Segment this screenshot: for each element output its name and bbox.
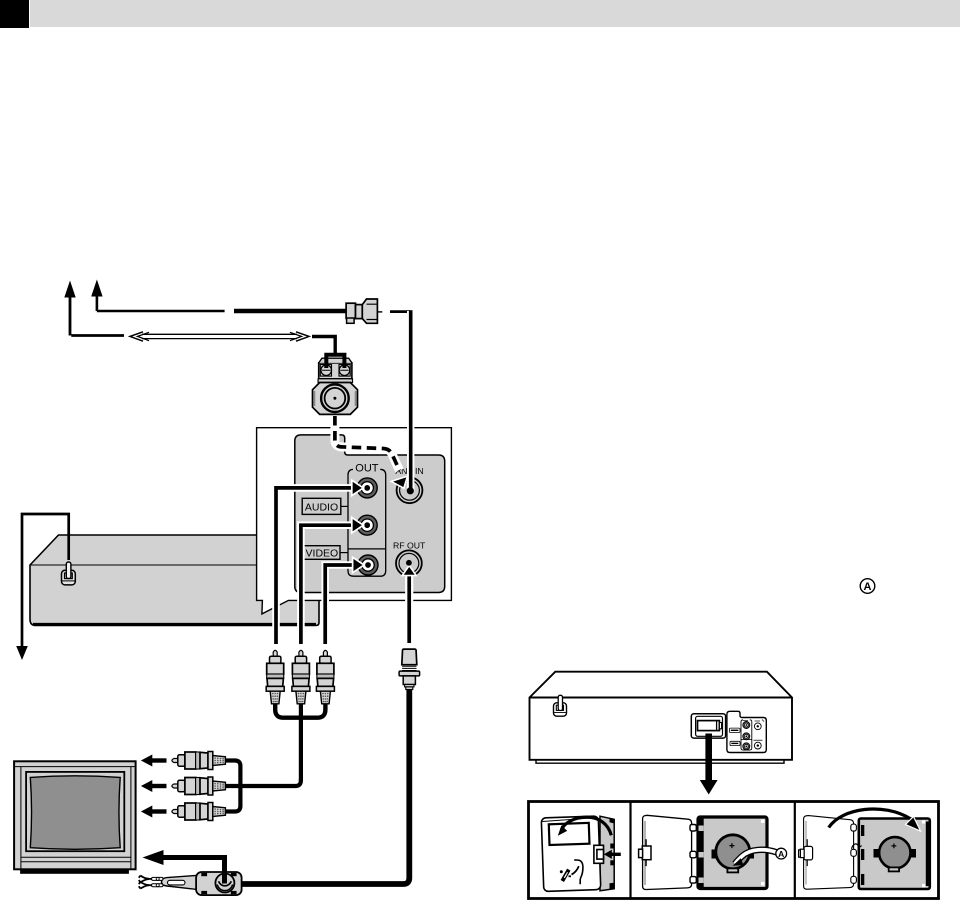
video cable with arrow bbox=[325, 557, 364, 644]
cable joins for left plugs bbox=[225, 761, 301, 812]
small VCR AC plug symbol bbox=[554, 695, 567, 716]
F connector (antenna coax) bbox=[346, 299, 382, 323]
RCA plug 2 (audio R, up) bbox=[292, 650, 310, 704]
RCA plug 3 (video, up) bbox=[316, 650, 334, 704]
arrow to TV (video) bbox=[141, 806, 167, 818]
step3: closing door bbox=[799, 809, 930, 889]
RF coax cable down to balun bbox=[243, 690, 410, 885]
contacts bbox=[712, 850, 720, 859]
RCA plug left 3 bbox=[172, 803, 226, 821]
RF coax F plug (down) bbox=[399, 649, 420, 689]
spade lug 2 bbox=[139, 882, 152, 889]
step1 push arrow bbox=[611, 853, 621, 856]
battery bbox=[879, 837, 910, 868]
header gray bar bbox=[30, 0, 960, 27]
VCR (main player) body bbox=[30, 535, 319, 626]
audio R cable with arrow bbox=[301, 518, 363, 645]
step2: open door and battery bbox=[639, 815, 787, 889]
twin-lead wire to transformer bbox=[312, 337, 335, 354]
door latch tab bbox=[799, 839, 813, 866]
ANT IN cable from elbow bbox=[407, 310, 414, 494]
door bbox=[643, 815, 692, 889]
coax cable to F connector bbox=[234, 309, 347, 313]
matching transformer (300-75 ohm) bbox=[313, 358, 358, 414]
small VCR jack panel bbox=[727, 711, 766, 752]
svg-text:OUT: OUT bbox=[355, 462, 379, 474]
VIDEO label box bbox=[304, 546, 348, 560]
svg-text:A: A bbox=[864, 581, 872, 593]
battery bbox=[716, 835, 750, 869]
balun Y-strip bbox=[162, 875, 197, 889]
callout box (white) bbox=[257, 428, 452, 614]
spring squiggle bbox=[852, 844, 862, 849]
three step panel box bbox=[529, 802, 939, 899]
arrow to TV (RF twin lead) bbox=[143, 850, 225, 884]
RCA plug 1 (audio L, up) bbox=[266, 650, 284, 704]
step1 latch bbox=[594, 845, 604, 863]
arrow to TV (audio L) bbox=[141, 755, 167, 767]
OUT label bbox=[353, 462, 380, 474]
balun twin wires bbox=[152, 877, 164, 880]
wire elbow from F connector to ANT IN bbox=[390, 310, 411, 313]
balun (75-300 ohm transformer) bbox=[139, 872, 242, 895]
rear jack panel (gray) bbox=[295, 435, 445, 593]
compartment bbox=[859, 819, 930, 890]
antenna arrow 1 (VHF) bbox=[64, 281, 124, 336]
curved arrow with A bbox=[735, 850, 777, 864]
OUT jacks group outline bbox=[348, 469, 386, 576]
small VCR (back view) bbox=[530, 672, 793, 764]
closing curved arrow bbox=[829, 809, 910, 828]
twin-lead U fork into terminals bbox=[326, 355, 344, 368]
step1 battery insert icon bbox=[560, 860, 583, 884]
big down arrow bbox=[700, 734, 718, 795]
svg-text:RF OUT: RF OUT bbox=[393, 541, 426, 551]
hinge bumps bbox=[690, 825, 696, 832]
svg-text:A: A bbox=[778, 849, 784, 859]
circled A reference bbox=[860, 579, 875, 594]
compartment bbox=[698, 817, 767, 889]
power cord arrowhead (to AC outlet) bbox=[16, 646, 28, 660]
twin-lead wire bbox=[130, 332, 309, 341]
dashed arrow transformer to ANT IN bbox=[335, 416, 408, 488]
spade lug 1 bbox=[139, 876, 152, 883]
AUDIO label box bbox=[302, 498, 348, 514]
RCA plug left 2 bbox=[172, 777, 226, 795]
svg-text:VIDEO: VIDEO bbox=[306, 548, 339, 560]
ANT IN jack bbox=[397, 477, 423, 503]
arrow to TV (audio R) bbox=[141, 780, 167, 792]
RF OUT up arrow bbox=[402, 560, 416, 643]
step1: battery door closed bbox=[541, 816, 621, 891]
hinge bumps bbox=[851, 824, 857, 831]
3-way cable junction bbox=[275, 704, 325, 781]
balun body bbox=[196, 872, 242, 895]
header black square bbox=[0, 0, 29, 28]
TV set bbox=[14, 761, 136, 874]
svg-text:AUDIO: AUDIO bbox=[305, 502, 338, 514]
power cord on VCR top bbox=[22, 514, 69, 648]
audio out L jack bbox=[357, 478, 377, 498]
door latch tab bbox=[639, 839, 651, 866]
antenna arrow 2 (UHF) bbox=[91, 280, 224, 312]
audio L cable with arrow bbox=[276, 480, 363, 644]
RCA plug left 1 bbox=[172, 752, 226, 770]
video out jack bbox=[358, 555, 378, 575]
small VCR battery compartment bbox=[691, 714, 725, 738]
contacts bbox=[874, 849, 881, 858]
door bbox=[804, 816, 854, 890]
step1 open-direction curved arrow bbox=[562, 817, 612, 835]
AC plug symbol on VCR bbox=[62, 562, 76, 585]
RF OUT jack bbox=[396, 550, 422, 576]
audio out R jack bbox=[357, 515, 377, 535]
